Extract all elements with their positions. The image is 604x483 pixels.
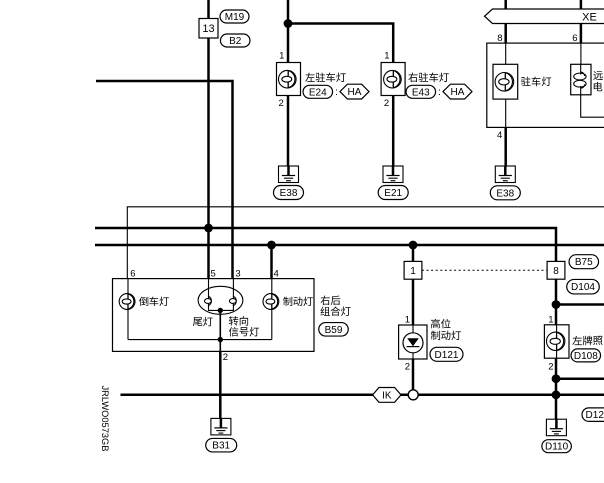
svg-text:2: 2	[279, 98, 284, 109]
svg-text:8: 8	[497, 33, 502, 44]
svg-text:4: 4	[497, 130, 502, 141]
svg-text:D108: D108	[574, 351, 598, 362]
svg-text::: :	[438, 87, 441, 98]
svg-text:D121: D121	[435, 350, 459, 361]
svg-text:E43: E43	[412, 87, 430, 98]
svg-text:2: 2	[384, 98, 389, 109]
svg-text:6: 6	[572, 33, 577, 44]
svg-text:2: 2	[548, 361, 553, 372]
svg-text:2: 2	[223, 352, 228, 363]
svg-text:D104: D104	[571, 282, 595, 293]
svg-text:B2: B2	[229, 36, 242, 47]
svg-text:3: 3	[235, 269, 240, 280]
svg-text:1: 1	[384, 50, 389, 61]
svg-text:13: 13	[202, 23, 214, 35]
svg-text:2: 2	[405, 361, 410, 372]
svg-text:IK: IK	[382, 390, 392, 401]
svg-text:XE: XE	[582, 11, 597, 23]
svg-text:B59: B59	[325, 325, 343, 336]
svg-text:1: 1	[279, 50, 284, 61]
svg-text:D110: D110	[545, 442, 569, 453]
svg-text:8: 8	[553, 266, 559, 277]
svg-text:6: 6	[130, 269, 135, 280]
svg-text:M19: M19	[225, 12, 245, 23]
svg-text::: :	[335, 87, 338, 98]
svg-text:E24: E24	[309, 87, 327, 98]
svg-text:HA: HA	[451, 87, 465, 98]
svg-text:E38: E38	[280, 188, 298, 199]
svg-text:B31: B31	[212, 441, 230, 452]
svg-text:1: 1	[410, 266, 416, 277]
svg-text:4: 4	[274, 269, 279, 280]
svg-text:E38: E38	[496, 188, 514, 199]
svg-text:E21: E21	[384, 188, 402, 199]
svg-text:1: 1	[405, 314, 410, 325]
svg-text:D127: D127	[586, 410, 604, 421]
svg-text:HA: HA	[348, 87, 362, 98]
svg-text:1: 1	[548, 314, 553, 325]
svg-text:JRLWO0573GB: JRLWO0573GB	[100, 386, 110, 452]
svg-text:5: 5	[211, 269, 216, 280]
svg-text:B75: B75	[575, 257, 593, 268]
